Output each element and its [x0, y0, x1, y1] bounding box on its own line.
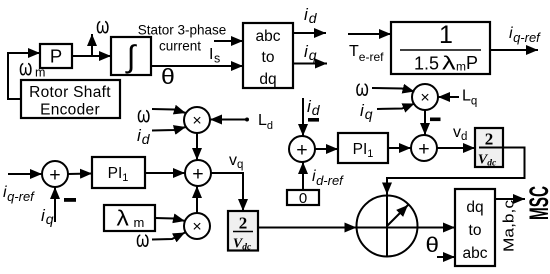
wire omega to M3 — [152, 233, 185, 240]
modulator circle — [357, 196, 418, 257]
wire iq-ref output — [490, 49, 538, 51]
svg-text:current: current — [159, 39, 201, 54]
svg-text:ω: ω — [96, 13, 109, 39]
block 2/Vdc d-axis — [475, 128, 503, 167]
svg-text:λ: λ — [117, 206, 130, 231]
svg-text:Encoder: Encoder — [40, 102, 100, 119]
wire lambda_m to M3 — [155, 218, 185, 221]
svg-text:θ: θ — [426, 233, 439, 256]
wire M2 to S3 — [424, 110, 426, 135]
wire theta to dq-abc — [437, 256, 455, 258]
wire omega to M2 — [372, 88, 415, 92]
svg-text:id: id — [137, 126, 151, 147]
wire id output — [293, 32, 326, 34]
wire iq output — [293, 63, 327, 65]
multiplier M1 — [184, 107, 210, 133]
svg-text:ω: ω — [356, 75, 369, 101]
wire Ld to M1 — [210, 119, 247, 121]
svg-text:P: P — [50, 46, 62, 67]
svg-text:iq: iq — [304, 42, 317, 63]
wire Lq to M2 — [438, 96, 459, 98]
modulator vertical axis — [386, 196, 388, 257]
svg-text:Is: Is — [209, 46, 220, 66]
svg-text:+: + — [296, 139, 307, 161]
multiplier M3 — [184, 213, 210, 239]
block lambda_m — [104, 205, 155, 231]
svg-text:+: + — [192, 163, 203, 185]
svg-text:×: × — [192, 219, 201, 236]
svg-text:to: to — [262, 49, 275, 66]
block 2/Vdc q-axis — [228, 211, 258, 251]
svg-text:Rotor Shaft: Rotor Shaft — [29, 84, 111, 101]
svg-text:P: P — [466, 53, 478, 73]
wire omega branch up — [91, 34, 93, 56]
svg-text:×: × — [192, 113, 201, 130]
svg-text:to: to — [469, 222, 482, 239]
wire S1 to PI1 q-axis — [68, 173, 92, 176]
minus sign at S4 — [308, 118, 319, 122]
svg-text:id: id — [304, 5, 318, 26]
svg-text:+: + — [49, 164, 60, 186]
block zero reference — [287, 190, 319, 205]
block torque to current gain — [391, 22, 490, 74]
svg-text:vd: vd — [453, 124, 467, 143]
svg-text:+: + — [418, 138, 429, 160]
wire S3 to Vdc block vd — [437, 147, 475, 149]
fraction bar and wire vd to modulator — [387, 148, 525, 195]
multiplier M2 — [412, 84, 438, 110]
svg-text:MSC: MSC — [524, 186, 550, 220]
fraction bar gain block — [400, 49, 481, 51]
svg-text:1: 1 — [439, 21, 453, 49]
svg-text:vq: vq — [229, 152, 243, 171]
svg-text:Stator 3-phase: Stator 3-phase — [138, 23, 227, 38]
svg-text:×: × — [420, 90, 429, 107]
wire PI1 to S3 — [388, 147, 411, 149]
svg-text:m: m — [35, 66, 45, 80]
wire P to integrator — [72, 55, 111, 57]
wire Te-ref input — [348, 33, 391, 35]
svg-text:λ: λ — [442, 53, 456, 74]
wire S2 to Vdc q-axis vq — [211, 173, 243, 211]
svg-text:iq-ref: iq-ref — [509, 25, 541, 45]
svg-text:id: id — [307, 97, 321, 118]
svg-text:Te-ref: Te-ref — [349, 43, 384, 64]
block integrator — [111, 37, 151, 75]
svg-text:ω: ω — [136, 226, 149, 252]
svg-text:dq: dq — [466, 199, 483, 216]
summing junction S1 — [42, 161, 68, 187]
block dq to abc — [455, 189, 495, 266]
svg-text:abc: abc — [256, 28, 281, 45]
svg-text:iq: iq — [41, 206, 54, 227]
dot at Ld wire tail — [245, 118, 249, 122]
minus sign at M2 output — [430, 118, 441, 122]
block PI1 q-axis — [92, 157, 145, 188]
svg-text:Ld: Ld — [258, 112, 273, 132]
svg-text:2: 2 — [485, 130, 494, 149]
svg-text:ω: ω — [19, 55, 32, 81]
svg-text:Ma,b,c: Ma,b,c — [501, 199, 518, 252]
svg-text:Lq: Lq — [462, 88, 477, 108]
summing junction S4 — [289, 136, 315, 162]
fraction bar q-axis Vdc — [233, 231, 253, 233]
svg-text:PI1: PI1 — [108, 165, 129, 184]
svg-text:abc: abc — [463, 245, 488, 262]
wire omega_m feedback — [8, 53, 40, 99]
svg-text:2: 2 — [239, 214, 248, 233]
svg-text:dq: dq — [259, 71, 276, 88]
wire id to M1 — [152, 127, 186, 131]
wire zero to S4 — [302, 162, 304, 190]
wire vq to modulator — [258, 227, 357, 229]
wire modulator to dq-abc — [417, 227, 455, 229]
wire iq feedback into S1 — [54, 187, 56, 222]
wire omega to M1 — [152, 109, 186, 113]
wire Mabc output — [495, 198, 525, 200]
wire M1 to S2 — [196, 133, 198, 160]
svg-text:id-ref: id-ref — [312, 168, 344, 188]
wire id feedback into S4 — [302, 98, 304, 136]
wire iq to M2 — [377, 104, 415, 110]
block P — [40, 44, 72, 68]
summing junction S2 — [185, 160, 211, 186]
minus sign at S1 — [64, 198, 76, 202]
svg-text:iq-ref: iq-ref — [3, 184, 35, 204]
svg-text:1.5: 1.5 — [414, 54, 439, 74]
svg-text:iq: iq — [360, 101, 373, 122]
svg-text:θ: θ — [161, 64, 175, 88]
wire S4 to PI1 d-axis — [315, 148, 338, 150]
wire Is to abc-dq — [214, 40, 243, 42]
svg-text:0: 0 — [299, 190, 307, 207]
svg-text:∫: ∫ — [125, 39, 138, 74]
wire PI1 to S2 — [145, 172, 185, 174]
svg-text:m: m — [456, 60, 466, 74]
block abc to dq — [243, 23, 293, 88]
svg-text:ω: ω — [137, 102, 150, 128]
summing junction S3 — [411, 135, 437, 161]
wire iq-ref input — [8, 173, 42, 175]
block PI1 d-axis — [338, 133, 388, 163]
modulator diagonal arrow — [387, 205, 408, 226]
svg-text:PI1: PI1 — [353, 141, 374, 160]
wire theta to abc-dq — [151, 65, 243, 67]
wire M3 to S2 — [196, 186, 198, 213]
block rotor shaft encoder — [21, 80, 120, 118]
modulator horizontal axis — [357, 227, 418, 229]
